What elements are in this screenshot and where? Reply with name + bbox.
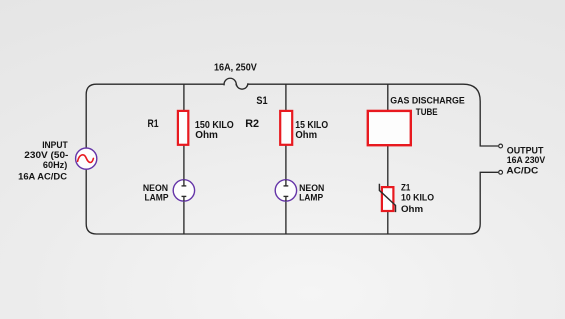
resistor R1 150k (178, 111, 188, 145)
svg-text:R2: R2 (245, 118, 259, 130)
wire top bus right of fuse to output terminal 1 (248, 84, 499, 146)
svg-text:230V (50-: 230V (50- (24, 150, 68, 160)
svg-text:Ohm: Ohm (401, 203, 423, 214)
svg-text:16A 230V: 16A 230V (507, 155, 546, 166)
varistor Z1 10k (379, 184, 395, 212)
svg-text:60Hz): 60Hz) (43, 160, 67, 170)
svg-text:S1: S1 (256, 95, 267, 107)
fuse / breaker S1 16A 250V (224, 78, 248, 89)
svg-text:10 KILO: 10 KILO (401, 191, 434, 202)
svg-text:16A AC/DC: 16A AC/DC (18, 172, 68, 182)
svg-text:R1: R1 (148, 118, 160, 130)
AC source (input 230V) (76, 148, 97, 169)
gas discharge tube (368, 111, 411, 145)
svg-text:16A, 250V: 16A, 250V (214, 63, 257, 74)
svg-text:LAMP: LAMP (145, 193, 169, 203)
output terminal 1 (499, 144, 503, 148)
wire R2 branch vertical (285, 84, 287, 234)
wire R1 branch vertical (183, 84, 185, 234)
svg-text:NEON: NEON (299, 183, 324, 193)
neon lamp 1 (173, 180, 194, 201)
svg-text:Ohm: Ohm (195, 130, 218, 141)
output terminal 2 (499, 170, 503, 174)
svg-text:NEON: NEON (143, 183, 168, 193)
svg-text:Ohm: Ohm (295, 130, 317, 141)
wire gas discharge tube / Z1 branch vertical (387, 84, 389, 234)
svg-text:TUBE: TUBE (416, 107, 438, 117)
neon lamp 2 (275, 180, 296, 201)
resistor R2 15k (280, 111, 292, 145)
svg-text:LAMP: LAMP (299, 193, 323, 203)
svg-text:INPUT: INPUT (42, 140, 68, 150)
svg-text:GAS DISCHARGE: GAS DISCHARGE (390, 96, 464, 106)
svg-text:AC/DC: AC/DC (506, 165, 538, 176)
wire: top bus left of fuse + input-side left vertical + bottom bus to output terminal 2 (86, 84, 498, 234)
